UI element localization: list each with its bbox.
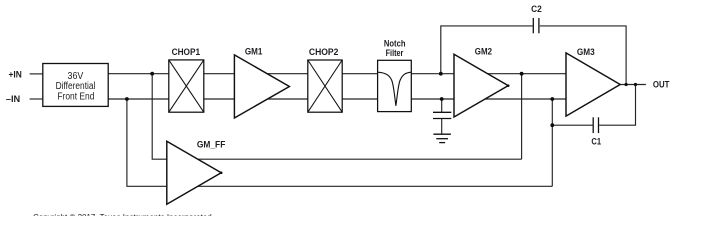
- chopper CHOP1: [169, 46, 204, 112]
- amplifier GM3: [566, 46, 620, 116]
- capacitor shunt at notch output: [433, 112, 451, 118]
- wire upper rail: [108, 73, 566, 75]
- wire GM_FF lower rail: [167, 185, 553, 187]
- wire C1 to output: [599, 85, 635, 126]
- svg-text:GM_FF: GM_FF: [197, 139, 226, 150]
- node upper tap to GM_FF: [150, 72, 154, 76]
- svg-text:CHOP1: CHOP1: [172, 46, 201, 57]
- amplifier GM2: [454, 46, 508, 117]
- node shunt cap tap lower rail: [440, 97, 444, 101]
- svg-text:GM1: GM1: [245, 46, 263, 57]
- wire C2 top path: [441, 26, 533, 74]
- svg-text:Filter: Filter: [386, 47, 404, 58]
- wire shunt cap leg: [441, 99, 443, 112]
- wire GM_FF upper rail: [167, 158, 522, 160]
- node GM_FF lower join: [550, 97, 554, 101]
- amplifier GM1: [234, 46, 289, 118]
- svg-text:CHOP2: CHOP2: [309, 46, 339, 57]
- svg-text:–IN: –IN: [6, 93, 21, 104]
- wire output: [620, 84, 646, 86]
- box 36V Differential Front End: [43, 64, 108, 107]
- amplifier GM_FF: [167, 139, 226, 205]
- wire riser upper feedforward left: [152, 74, 167, 160]
- svg-text:OUT: OUT: [653, 78, 670, 89]
- chopper CHOP2: [308, 46, 342, 112]
- capacitor C1: [591, 117, 601, 146]
- node GM_FF output apex: [220, 171, 223, 174]
- svg-text:+IN: +IN: [9, 69, 22, 80]
- wire +IN stub: [30, 73, 43, 75]
- node C2 tap upper rail: [439, 72, 443, 76]
- wire C2 to output: [540, 26, 626, 85]
- svg-text:C2: C2: [531, 3, 542, 14]
- wire cap to ground: [441, 119, 443, 135]
- node output C2 join: [625, 83, 628, 86]
- svg-text:C1: C1: [591, 136, 601, 147]
- node C1 tap: [550, 123, 554, 127]
- node GM_FF upper join: [520, 72, 524, 76]
- ground: [433, 134, 451, 142]
- wire -IN stub: [30, 98, 43, 100]
- node GM2 output apex: [507, 84, 510, 87]
- svg-text:Front End: Front End: [57, 91, 94, 102]
- wire C1 left path: [552, 124, 592, 126]
- svg-text:GM3: GM3: [577, 46, 595, 57]
- node output C1 join: [634, 83, 637, 86]
- wire riser upper feedforward right: [521, 74, 523, 160]
- capacitor C2: [531, 3, 542, 33]
- node lower tap to GM_FF: [125, 97, 129, 101]
- wire riser lower feedforward right: [551, 99, 553, 186]
- svg-text:GM2: GM2: [475, 46, 492, 57]
- wire lower rail: [108, 98, 566, 100]
- notch filter: [378, 38, 412, 112]
- node dots: [125, 72, 637, 174]
- wire riser lower feedforward left: [127, 99, 167, 186]
- svg-text:Copyright © 2017, Texas Instru: Copyright © 2017, Texas Instruments Inco…: [33, 213, 212, 216]
